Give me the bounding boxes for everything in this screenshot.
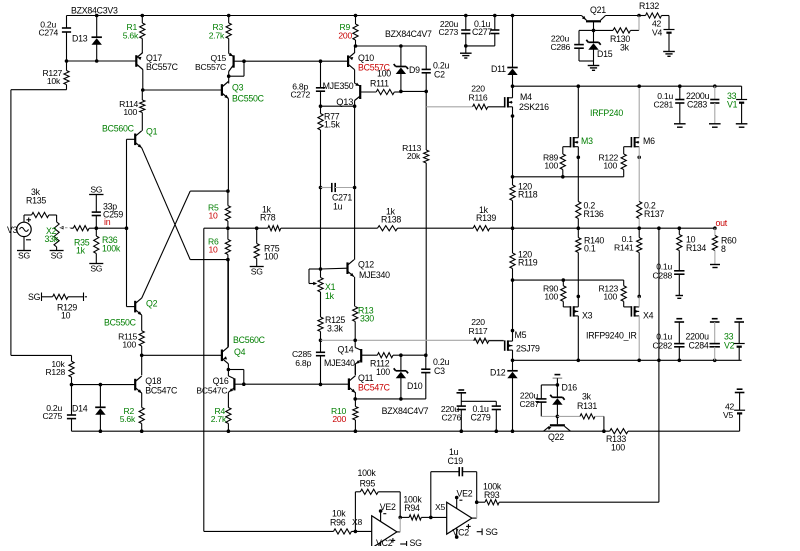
wire Q16 emitter — [227, 392, 229, 407]
svg-text:1k: 1k — [76, 246, 86, 256]
svg-text:SG: SG — [90, 184, 102, 194]
svg-text:M3: M3 — [581, 136, 593, 146]
svg-text:R111: R111 — [370, 79, 389, 89]
svg-text:20k: 20k — [407, 151, 421, 161]
resistor R123 — [598, 280, 626, 307]
wire Q4 base line — [142, 354, 222, 356]
svg-text:V2: V2 — [724, 341, 735, 351]
svg-text:100: 100 — [123, 107, 137, 117]
ground SG R75 — [250, 267, 264, 277]
wire X1 wiper — [309, 269, 321, 285]
resistor R118 — [510, 182, 538, 229]
capacitor C259 — [92, 195, 124, 229]
diode D11 — [491, 14, 518, 87]
svg-text:SG: SG — [28, 292, 41, 302]
svg-text:MJE350: MJE350 — [323, 81, 354, 91]
svg-text:100: 100 — [264, 252, 278, 262]
svg-text:X5: X5 — [435, 502, 445, 512]
transistor Q18 — [135, 376, 178, 396]
svg-text:BC547C: BC547C — [145, 386, 178, 396]
svg-text:R117: R117 — [469, 326, 488, 336]
svg-text:X8: X8 — [352, 517, 362, 527]
svg-text:IRFP240: IRFP240 — [590, 108, 623, 118]
svg-text:200: 200 — [332, 414, 346, 424]
resistor R119 — [510, 228, 538, 282]
wire left loop — [11, 90, 67, 356]
resistor R125 — [318, 292, 345, 340]
resistor R116 — [426, 84, 504, 110]
capacitor C273 — [438, 14, 470, 46]
wire diag B — [142, 191, 228, 298]
svg-text:R141: R141 — [614, 243, 634, 253]
svg-text:Q3: Q3 — [232, 83, 244, 93]
wire R128 line — [11, 354, 72, 356]
wire out to lower rail — [658, 228, 660, 360]
transistor Q22 — [544, 425, 571, 442]
wire Q21 collector rail — [606, 14, 641, 18]
wire Q3 emitter — [227, 99, 229, 192]
wire Q11 emitter — [354, 392, 356, 399]
node R96 — [352, 530, 372, 534]
svg-text:2.7k: 2.7k — [209, 31, 225, 41]
wire Q2 base stub — [127, 306, 136, 308]
wire Q17 base — [65, 59, 137, 63]
resistor R137 — [637, 201, 665, 229]
label in — [104, 217, 111, 227]
ground R60 — [710, 265, 720, 268]
resistor R60 — [712, 228, 736, 264]
wire M6 gate — [624, 147, 632, 154]
svg-text:1.5k: 1.5k — [324, 120, 340, 130]
resistor R36 — [94, 228, 121, 263]
wire Q10 base — [244, 60, 348, 62]
resistor R122 — [598, 153, 626, 177]
resistor R128 — [45, 355, 74, 384]
wire R95 drop — [398, 492, 402, 519]
node R6 bottom — [226, 258, 230, 262]
capacitor C281 — [653, 86, 684, 124]
resistor R2 — [120, 406, 145, 431]
capacitor C275 — [42, 385, 76, 432]
resistor R95 — [355, 468, 400, 531]
capacitor C3 — [421, 355, 449, 399]
battery V5 — [723, 389, 745, 431]
wire R130 riser — [638, 16, 640, 31]
svg-text:X3: X3 — [582, 311, 593, 321]
wire Q18 base line — [70, 383, 136, 387]
svg-text:5.6k: 5.6k — [120, 414, 136, 424]
svg-text:R138: R138 — [381, 215, 401, 225]
resistor R114 — [119, 90, 145, 131]
diode D9 zener — [394, 46, 420, 93]
wire gate bus upper — [511, 175, 624, 179]
resistor R115 — [118, 315, 144, 357]
label BZX84C3V3 — [71, 6, 118, 16]
wire M6 source grey — [637, 147, 641, 202]
wire Q16 base lead — [234, 383, 243, 385]
op-amp X8 — [352, 516, 397, 548]
wire X4 drain grey — [638, 316, 640, 360]
svg-text:33k: 33k — [45, 234, 59, 244]
svg-text:C283: C283 — [687, 100, 707, 110]
svg-text:R131: R131 — [577, 401, 597, 411]
node R94 C19 — [429, 516, 447, 520]
source V3 — [7, 218, 31, 240]
ground C273 — [460, 53, 472, 58]
wire lower rail — [513, 359, 742, 363]
svg-text:2.7k: 2.7k — [211, 414, 227, 424]
wire main line 4 — [490, 227, 715, 229]
resistor R113 — [402, 91, 429, 355]
wire top rail — [67, 15, 582, 17]
svg-text:D14: D14 — [72, 404, 88, 414]
svg-text:1u: 1u — [333, 202, 343, 212]
svg-text:BC557C: BC557C — [195, 62, 226, 72]
svg-text:Q22: Q22 — [548, 432, 564, 442]
wire Q3 base — [143, 89, 222, 91]
svg-text:D9: D9 — [409, 65, 420, 75]
resistor R1 — [123, 14, 145, 53]
resistor R5 — [208, 191, 231, 228]
svg-text:100k: 100k — [102, 244, 121, 254]
node main line — [226, 226, 230, 230]
wire feedback bottom — [204, 530, 334, 532]
svg-text:BZX84C3V3: BZX84C3V3 — [71, 6, 118, 16]
wire M4 source — [511, 107, 515, 185]
svg-text:3k: 3k — [620, 43, 630, 53]
node R5 top — [226, 189, 230, 193]
svg-text:10: 10 — [209, 245, 219, 255]
transistor Q13 MJE350 — [323, 81, 361, 107]
svg-text:C272: C272 — [290, 90, 310, 100]
transistor Q12 MJE340 — [348, 260, 391, 281]
svg-text:Q21: Q21 — [590, 5, 606, 15]
wire bottom rail right — [628, 430, 740, 432]
transistor Q15 — [195, 53, 234, 72]
wire VAS node — [321, 105, 355, 107]
svg-text:VE2: VE2 — [457, 488, 473, 498]
svg-text:R118: R118 — [518, 190, 538, 200]
mosfet M5 2SJ79 — [505, 330, 540, 354]
resistor R111 — [360, 69, 401, 95]
wire M5 drain — [511, 350, 515, 362]
svg-text:SG: SG — [486, 527, 499, 537]
wire M5 source — [511, 280, 515, 341]
wire Q12 emitter — [354, 277, 356, 307]
wire main line 3 — [398, 227, 474, 229]
resistor R4 — [211, 406, 231, 431]
wire M6 drain grey — [637, 84, 641, 137]
svg-text:D11: D11 — [491, 64, 506, 74]
svg-text:SG: SG — [18, 251, 30, 261]
capacitor C279 — [461, 401, 501, 431]
wire D9-C2 node — [401, 90, 428, 94]
svg-text:Q2: Q2 — [146, 299, 158, 309]
resistor R130 — [594, 28, 640, 53]
svg-text:R134: R134 — [686, 243, 706, 253]
svg-text:BC560C: BC560C — [102, 124, 135, 134]
resistor R136 — [576, 201, 604, 229]
svg-text:0.1: 0.1 — [584, 244, 596, 254]
svg-text:V3: V3 — [7, 225, 18, 235]
wire VAS vertical — [354, 106, 356, 260]
resistor R93 — [477, 482, 659, 505]
svg-text:R78: R78 — [260, 213, 276, 223]
mosfet X3 IRFP9240 — [571, 306, 593, 320]
op-amp X5 output riser — [472, 500, 479, 518]
resistor R129 — [28, 292, 87, 321]
svg-text:BC550C: BC550C — [104, 318, 137, 328]
capacitor C288 — [652, 251, 684, 296]
wire Q4 emitter — [227, 364, 231, 372]
wire C286 D15 join — [579, 60, 594, 62]
svg-text:Q4: Q4 — [234, 347, 246, 357]
svg-text:R137: R137 — [644, 209, 664, 219]
capacitor C277 — [472, 14, 499, 46]
svg-text:100: 100 — [603, 161, 617, 171]
mosfet M6 — [631, 136, 655, 147]
mosfet M4 2SK216 — [505, 92, 549, 112]
resistor R135 — [26, 187, 49, 218]
resistor R127 — [42, 61, 69, 90]
diode D10 zener — [394, 355, 423, 401]
resistor R96 — [330, 509, 352, 535]
resistor R94 — [400, 495, 431, 521]
svg-text:R119: R119 — [518, 258, 538, 268]
resistor R131 — [557, 392, 604, 420]
transistor Q11 — [349, 373, 391, 393]
diode D16 — [550, 375, 577, 417]
node R112 — [399, 353, 428, 357]
svg-text:D16: D16 — [562, 383, 578, 393]
capacitor C285 — [292, 340, 325, 386]
svg-text:V1: V1 — [727, 100, 738, 110]
diode D12 — [490, 360, 518, 431]
capacitor C271 — [319, 183, 357, 212]
wire main line left — [204, 227, 228, 229]
resistor R6 — [208, 228, 231, 259]
svg-text:BZX84C4V7: BZX84C4V7 — [385, 29, 432, 39]
svg-text:R136: R136 — [584, 209, 604, 219]
ground SG C259 — [89, 184, 103, 194]
capacitor C287 — [519, 385, 557, 417]
svg-text:3k: 3k — [582, 392, 592, 402]
svg-text:8: 8 — [721, 244, 726, 254]
wire X4 source grey — [637, 295, 641, 307]
wire bias top rail — [356, 44, 427, 48]
ground C283 — [709, 124, 721, 127]
wire Q18 emitter — [141, 393, 143, 408]
wire Q4 collector — [227, 260, 229, 347]
svg-text:R94: R94 — [404, 503, 420, 513]
resistor R139 — [473, 205, 496, 231]
transistor Q1 — [102, 124, 158, 148]
wire Q11 base line — [244, 383, 349, 385]
svg-text:Q11: Q11 — [358, 373, 374, 383]
wire Q1 base stub — [127, 138, 136, 140]
wire M3 source — [577, 147, 581, 202]
label IRFP240 — [590, 108, 623, 118]
wire R131 riser — [603, 416, 605, 431]
svg-text:BC547C: BC547C — [196, 386, 227, 396]
svg-text:R96: R96 — [330, 517, 346, 527]
wire input bases vertical — [126, 139, 128, 306]
svg-text:Q10: Q10 — [358, 53, 374, 63]
mosfet X4 — [631, 306, 653, 320]
wire Q16 diode loop — [228, 370, 245, 387]
resistor R3 — [209, 14, 232, 54]
resistor R133 — [606, 429, 628, 453]
transistor Q4 — [222, 335, 266, 364]
wire main line 2 — [281, 227, 378, 229]
svg-text:C274: C274 — [38, 28, 58, 38]
label IRFP9240_IR — [586, 331, 637, 341]
label out — [716, 218, 728, 228]
resistor R112 — [361, 353, 401, 377]
svg-text:C286: C286 — [550, 42, 570, 52]
svg-text:C273: C273 — [438, 27, 458, 37]
svg-text:X4: X4 — [643, 311, 654, 321]
svg-text:out: out — [716, 218, 728, 228]
svg-text:2SK216: 2SK216 — [519, 102, 549, 112]
svg-text:100: 100 — [611, 443, 625, 453]
label BZX84C4V7 bottom — [382, 406, 429, 416]
wire gate bus lower — [513, 278, 624, 282]
wire bias bottom rail — [353, 397, 425, 401]
node out line — [511, 226, 717, 230]
op-amp X8 output riser — [397, 517, 400, 532]
svg-text:Q16: Q16 — [213, 376, 229, 386]
wire X1 vertical — [319, 188, 323, 271]
resistor R132 — [639, 1, 669, 18]
ground C288 — [676, 296, 684, 299]
svg-text:MJE340: MJE340 — [359, 270, 390, 280]
op-amp X5 supply VE2 — [455, 488, 473, 508]
svg-text:Q14: Q14 — [338, 345, 354, 355]
transistor Q21 — [582, 5, 607, 21]
capacitor C276 — [441, 390, 466, 431]
potentiometer X2 — [45, 222, 71, 247]
svg-text:MJE340: MJE340 — [324, 358, 355, 368]
svg-text:C279: C279 — [471, 412, 491, 422]
resistor R141 — [614, 228, 642, 296]
svg-text:M6: M6 — [643, 136, 655, 146]
wire Q22 base node — [541, 415, 559, 425]
wire Q10 vertical — [354, 44, 358, 83]
svg-text:M5: M5 — [515, 330, 527, 340]
svg-text:R139: R139 — [476, 213, 496, 223]
svg-text:VE2: VE2 — [380, 502, 396, 512]
wire Q17 collector — [141, 70, 145, 92]
wire Q14 collector — [354, 364, 356, 375]
svg-text:C277: C277 — [472, 27, 492, 37]
resistor R9 — [338, 14, 358, 46]
capacitor C272 — [290, 59, 325, 108]
node input — [95, 226, 129, 230]
svg-text:VC2: VC2 — [453, 528, 470, 538]
resistor R138 — [378, 207, 402, 231]
capacitor C286 — [550, 30, 593, 61]
svg-text:BC557C: BC557C — [146, 62, 179, 72]
wire diag A — [142, 148, 228, 260]
svg-text:SG: SG — [90, 264, 102, 274]
resistor R90 — [543, 280, 566, 307]
battery V1 — [727, 91, 747, 124]
ground C281 — [674, 124, 686, 127]
resistor R134 — [677, 228, 707, 253]
capacitor C284 grey — [686, 319, 720, 361]
transistor Q10 — [348, 53, 391, 73]
wire bottom rail — [72, 429, 610, 433]
transistor Q14 MJE340 — [324, 340, 361, 368]
svg-text:10: 10 — [61, 311, 71, 321]
svg-text:10k: 10k — [47, 76, 61, 86]
svg-text:5.6k: 5.6k — [123, 31, 139, 41]
svg-text:V5: V5 — [723, 410, 733, 420]
svg-text:IRFP9240_IR: IRFP9240_IR — [586, 331, 637, 341]
capacitor C274 — [38, 16, 71, 62]
resistor R78 — [260, 205, 281, 231]
battery V4 — [652, 19, 675, 52]
ground V4 — [663, 52, 675, 57]
svg-text:100: 100 — [544, 292, 558, 302]
svg-text:C282: C282 — [652, 341, 672, 351]
svg-text:BZX84C4V7: BZX84C4V7 — [382, 406, 429, 416]
svg-text:C19: C19 — [448, 456, 464, 466]
wire feedback tap — [203, 228, 205, 531]
wire Q11 collector — [354, 364, 356, 375]
svg-text:D13: D13 — [72, 34, 88, 44]
op-amp X8 supply VE2 — [379, 502, 396, 522]
wire M4 drain — [512, 86, 514, 98]
svg-text:Q1: Q1 — [146, 127, 158, 137]
op-amp X8 SG — [400, 538, 422, 548]
svg-text:Q18: Q18 — [145, 376, 161, 386]
diode D15 — [586, 30, 612, 65]
wire Q15 base lead — [234, 59, 246, 63]
ground SG R36 — [89, 264, 103, 274]
transistor Q3 — [222, 82, 265, 104]
wire M3 gate — [563, 147, 571, 154]
svg-text:100: 100 — [377, 69, 391, 79]
svg-text:SG: SG — [410, 538, 423, 546]
svg-text:BC547C: BC547C — [358, 383, 391, 393]
capacitor C2 — [422, 46, 450, 91]
svg-text:C288: C288 — [652, 271, 672, 281]
transistor Q16 — [196, 370, 234, 396]
svg-text:V4: V4 — [652, 28, 662, 38]
wire V4 lead — [668, 16, 670, 30]
diode D13 — [72, 14, 102, 63]
op-amp X8 supply VC2 — [376, 538, 395, 548]
capacitor C282 — [652, 319, 684, 361]
svg-text:R128: R128 — [45, 367, 65, 377]
svg-text:3.3k: 3.3k — [327, 324, 343, 334]
svg-text:D12: D12 — [490, 368, 506, 378]
op-amp X5 SG — [477, 527, 498, 537]
svg-text:R95: R95 — [360, 478, 376, 488]
resistor R77 — [318, 106, 341, 187]
svg-text:C2: C2 — [434, 70, 445, 80]
wire Q12 base — [321, 267, 348, 270]
potentiometer X1 — [318, 269, 336, 301]
svg-text:R132: R132 — [639, 1, 659, 11]
ground SG X2 — [50, 247, 64, 261]
wire X4 gate — [624, 306, 632, 308]
wire X3 gate — [563, 306, 570, 308]
wire X3 source — [577, 295, 581, 307]
op-amp X5 — [435, 502, 472, 534]
